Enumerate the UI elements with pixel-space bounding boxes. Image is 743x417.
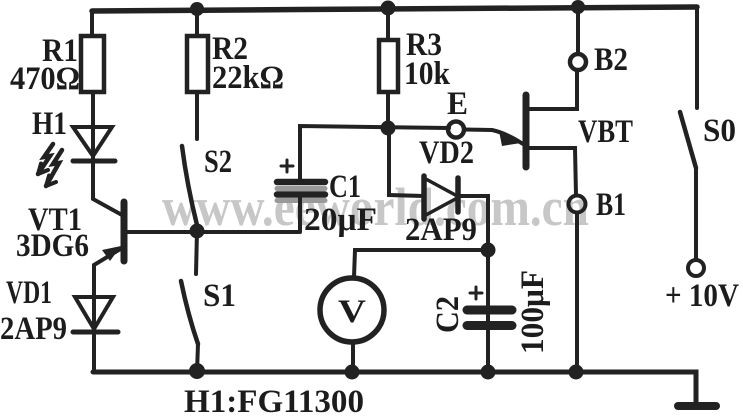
svg-text:S0: S0 (703, 113, 736, 149)
switch S0 (680, 112, 696, 168)
svg-text:+ 10V: + 10V (665, 278, 739, 314)
resistor R3 (379, 40, 398, 92)
wire VD2 anode lead (389, 128, 424, 196)
node E terminal (448, 122, 464, 138)
wire C2 bottom lead (486, 330, 490, 372)
label V meter (338, 294, 366, 330)
label S1 (203, 278, 236, 314)
label 2AP9 VD1 (0, 311, 67, 347)
label VT1 (28, 202, 82, 238)
node B1 terminal (569, 196, 586, 213)
svg-text:20μF: 20μF (304, 202, 377, 238)
svg-text:S1: S1 (203, 278, 236, 314)
svg-text:100μF: 100μF (515, 270, 551, 354)
svg-text:B1: B1 (596, 187, 626, 223)
wire H1 to VT1 collector (93, 161, 122, 215)
svg-text:VBT: VBT (578, 114, 633, 150)
meter V voltmeter (320, 278, 384, 342)
node junction voltmeter bottom (345, 365, 360, 380)
wire junction to S1 contact (196, 231, 197, 274)
wire C1 top lead (300, 126, 449, 179)
svg-text:10k: 10k (404, 56, 451, 92)
wire bottom ground rail (93, 372, 696, 403)
svg-text:VD1: VD1 (6, 275, 52, 311)
label B2 (594, 42, 628, 78)
svg-text:C2: C2 (430, 296, 466, 333)
switch S2 (182, 146, 197, 225)
diode VD2 (424, 176, 459, 219)
wire C2 top lead (486, 250, 490, 372)
node junction B2 top (571, 0, 585, 14)
wire S0 top lead (695, 7, 699, 108)
switch S1 (181, 281, 198, 344)
svg-text:E: E (447, 86, 468, 122)
wire VD1 to ground rail (92, 332, 96, 372)
label C2 rotated (430, 296, 466, 333)
wire C1 bottom lead (298, 197, 302, 232)
label VD1 (6, 275, 52, 311)
wire base line VT1 (127, 230, 298, 234)
transistor VT1 (94, 202, 124, 265)
label 100uF rotated (515, 270, 551, 354)
node junction C2 bottom (481, 365, 496, 380)
label 2AP9 VD2 (405, 212, 477, 248)
svg-text:V: V (338, 294, 366, 330)
lamp H1 flash tube (38, 127, 115, 186)
wire R1 top lead (90, 11, 94, 36)
wire B1 to ground rail (575, 213, 579, 372)
wire R2 to S2 contact (195, 92, 199, 139)
label 22kohm (212, 60, 284, 96)
wire top supply rail (92, 7, 697, 11)
node junction R3 top (381, 1, 396, 16)
wire VBT base1 to B1 (526, 148, 576, 195)
label 10k (404, 56, 451, 92)
svg-text:22kΩ: 22kΩ (212, 60, 284, 96)
resistor R2 (187, 36, 208, 92)
label H1 (32, 106, 67, 142)
wire R2 top lead (195, 9, 199, 36)
label S0 (703, 113, 736, 149)
node B2 terminal (570, 54, 586, 70)
label VD2 (419, 135, 474, 171)
label S2 (204, 144, 232, 180)
diode VD1 (73, 297, 118, 332)
watermark www.eeworld.com.cn (162, 177, 589, 237)
label R2 (212, 31, 248, 67)
label 20uF (304, 202, 377, 238)
svg-text:C1: C1 (329, 169, 361, 205)
wire VBT base2 to B2 (526, 72, 577, 109)
node junction S2 base (190, 224, 205, 239)
node junction B1 bottom (569, 365, 584, 380)
svg-text:S2: S2 (204, 144, 232, 180)
svg-text:3DG6: 3DG6 (16, 228, 89, 264)
label R3 (406, 27, 442, 63)
label E (447, 86, 468, 122)
capacitor C1 (277, 160, 325, 201)
node junction C2 top (481, 243, 496, 258)
node junction E line (381, 121, 396, 136)
svg-text:B2: B2 (594, 42, 628, 78)
wire R3 top lead (386, 8, 390, 40)
svg-text:470Ω: 470Ω (10, 61, 80, 97)
wire voltmeter top lead (354, 250, 488, 277)
wire VD2 cathode lead (458, 196, 488, 250)
node junction R2 top (190, 2, 204, 16)
wire voltmeter bottom lead (351, 343, 355, 372)
svg-text:H1: H1 (32, 106, 67, 142)
label B1 (596, 187, 626, 223)
label H1 FG11300 (184, 384, 364, 417)
svg-text:H1:FG11300: H1:FG11300 (184, 384, 364, 417)
wire B2 to top rail (576, 7, 580, 53)
wire R3 bottom lead (386, 92, 390, 128)
ground symbol (678, 402, 716, 410)
resistor R1 (81, 36, 104, 92)
label R1 (42, 33, 78, 69)
label 470ohm (10, 61, 80, 97)
wire S0 to +10V terminal (694, 168, 698, 260)
svg-text:2AP9: 2AP9 (0, 311, 67, 347)
transistor VBT unijunction (464, 95, 526, 167)
node +10V terminal (688, 260, 704, 276)
label C1 (329, 169, 361, 205)
wire R1 to H1 (91, 92, 95, 161)
wire S1 to ground rail (197, 344, 198, 372)
svg-text:2AP9: 2AP9 (405, 212, 477, 248)
wire VT1 emitter to VD1 (92, 265, 96, 332)
node junction S1 bottom (189, 363, 205, 379)
svg-text:VD2: VD2 (419, 135, 474, 171)
capacitor C2 (467, 287, 512, 326)
label 3DG6 (16, 228, 89, 264)
label +10V (665, 278, 739, 314)
label VBT (578, 114, 633, 150)
